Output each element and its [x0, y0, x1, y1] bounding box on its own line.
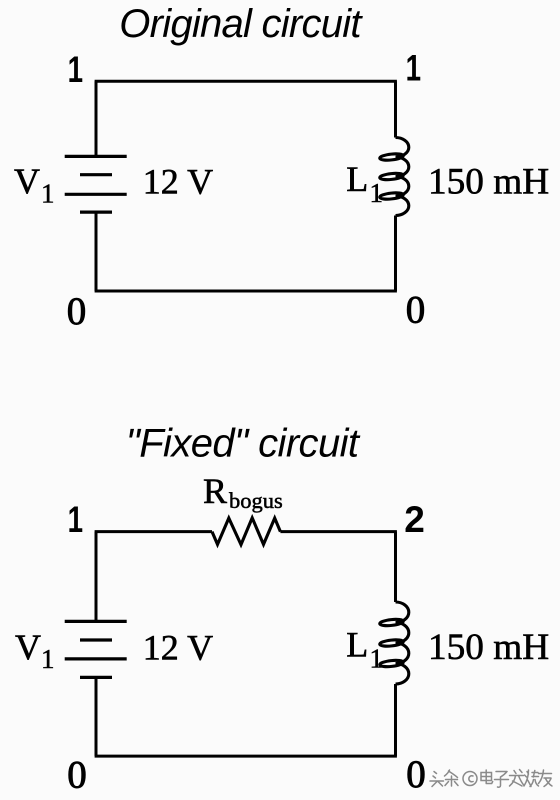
svg-text:R: R — [203, 471, 227, 511]
svg-text:12 V: 12 V — [143, 161, 213, 201]
inductor L1 (fixed circuit) — [379, 602, 408, 684]
svg-text:"Fixed" circuit: "Fixed" circuit — [126, 421, 361, 465]
wire: right side upper (node 1 to inductor) — [394, 81, 397, 137]
svg-text:L: L — [346, 159, 368, 199]
resistor Rbogus — [212, 518, 280, 545]
svg-text:150 mH: 150 mH — [428, 627, 549, 668]
svg-text:1: 1 — [370, 644, 384, 674]
wire: left side upper (node 1 to battery) — [95, 532, 98, 622]
wire: right side lower (inductor to node 0) — [394, 684, 397, 756]
svg-text:1: 1 — [370, 178, 384, 208]
svg-text:0: 0 — [406, 288, 426, 331]
svg-text:1: 1 — [41, 644, 55, 674]
svg-text:1: 1 — [68, 498, 83, 540]
watermark: 头条 @电子发烧友 — [430, 770, 552, 788]
svg-text:V: V — [15, 627, 41, 667]
svg-text:1: 1 — [41, 179, 55, 209]
battery V1 (original circuit) — [65, 156, 127, 212]
wire: top-left segment (node 1 to resistor) — [95, 530, 212, 533]
svg-text:0: 0 — [406, 753, 426, 796]
svg-text:1: 1 — [68, 48, 83, 90]
battery V1 (fixed circuit) — [65, 621, 127, 677]
wire: right side lower (inductor to node 0) — [394, 216, 397, 292]
wire: left side lower (battery to node 0) — [95, 677, 98, 756]
svg-text:bogus: bogus — [229, 488, 283, 513]
svg-text:L: L — [346, 625, 368, 665]
svg-text:2: 2 — [404, 499, 425, 540]
wire: top side of original circuit — [95, 80, 397, 83]
svg-text:150 mH: 150 mH — [428, 162, 549, 203]
svg-text:12 V: 12 V — [143, 627, 213, 667]
wire: left side lower (battery to node 0) — [95, 212, 98, 291]
svg-text:V: V — [14, 161, 40, 201]
svg-text:Original circuit: Original circuit — [119, 2, 363, 46]
wire: bottom side of fixed circuit — [95, 755, 397, 758]
wire: bottom side of original circuit — [95, 290, 397, 293]
wire: left side upper (node 1 to battery) — [95, 81, 98, 156]
svg-text:0: 0 — [67, 754, 87, 797]
wire: right side upper (node 2 to inductor) — [394, 532, 397, 602]
inductor L1 (original circuit) — [379, 138, 408, 216]
svg-text:0: 0 — [67, 290, 87, 333]
svg-text:1: 1 — [406, 47, 421, 89]
wire: top-right segment (resistor to node 2) — [280, 530, 397, 533]
